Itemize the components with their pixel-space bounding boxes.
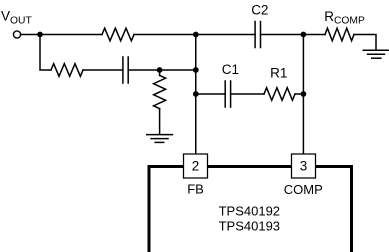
pin box 3: [292, 154, 316, 178]
junction: R1 / COMP vertical: [301, 91, 307, 97]
wire: C1 to R1: [231, 93, 264, 95]
wire: lower resistor to series capacitor: [83, 69, 123, 71]
wire: C2 to RCOMP: [261, 34, 326, 36]
junction: C1 branch / FB vertical: [193, 91, 199, 97]
svg-text:VOUT: VOUT: [1, 9, 32, 27]
resistor (lower feedback R): [51, 64, 83, 77]
wire: VOUT node down to lower branch: [40, 35, 51, 71]
terminal VOUT: [13, 31, 20, 38]
junction: lower branch / FB vertical: [193, 67, 199, 73]
wire: capacitor to FB node: [128, 69, 196, 71]
svg-text:C2: C2: [251, 3, 268, 18]
resistor R1: [264, 88, 295, 101]
capacitor C1: [225, 81, 230, 107]
ground (RCOMP): [363, 50, 388, 58]
svg-text:RCOMP: RCOMP: [324, 9, 365, 27]
wire: VOUT terminal to top resistor: [21, 34, 102, 36]
wire: RCOMP to ground: [354, 35, 376, 50]
resistor RCOMP: [325, 28, 354, 41]
wire: R1 to COMP vertical: [295, 93, 303, 95]
capacitor C2: [255, 22, 260, 48]
svg-text:TPS40193: TPS40193: [219, 219, 280, 234]
IC outline TPS4019x: [149, 167, 352, 252]
junction: divider node: [157, 67, 163, 73]
wire: top resistor to C2: [134, 34, 255, 36]
svg-text:2: 2: [192, 158, 200, 173]
svg-text:TPS40192: TPS40192: [219, 203, 280, 218]
svg-text:FB: FB: [187, 182, 204, 197]
resistor (divider lower R, vertical): [154, 70, 166, 134]
svg-text:C1: C1: [222, 62, 239, 77]
pin box 2: [184, 154, 208, 178]
wire: FB vertical (top node to pin 2): [195, 35, 197, 155]
svg-text:COMP: COMP: [284, 182, 323, 197]
wire: FB node to C1: [196, 93, 225, 95]
svg-text:R1: R1: [270, 65, 287, 80]
capacitor (lower feedback C): [123, 57, 128, 83]
junction: VOUT node: [37, 32, 43, 38]
svg-text:3: 3: [300, 158, 308, 173]
wire: COMP vertical (top node to pin 3): [302, 35, 304, 155]
ground (divider): [147, 135, 173, 143]
junction: top wire / FB vertical: [193, 32, 199, 38]
resistor (upper feedback R): [102, 28, 134, 41]
junction: top wire / COMP vertical: [301, 32, 307, 38]
